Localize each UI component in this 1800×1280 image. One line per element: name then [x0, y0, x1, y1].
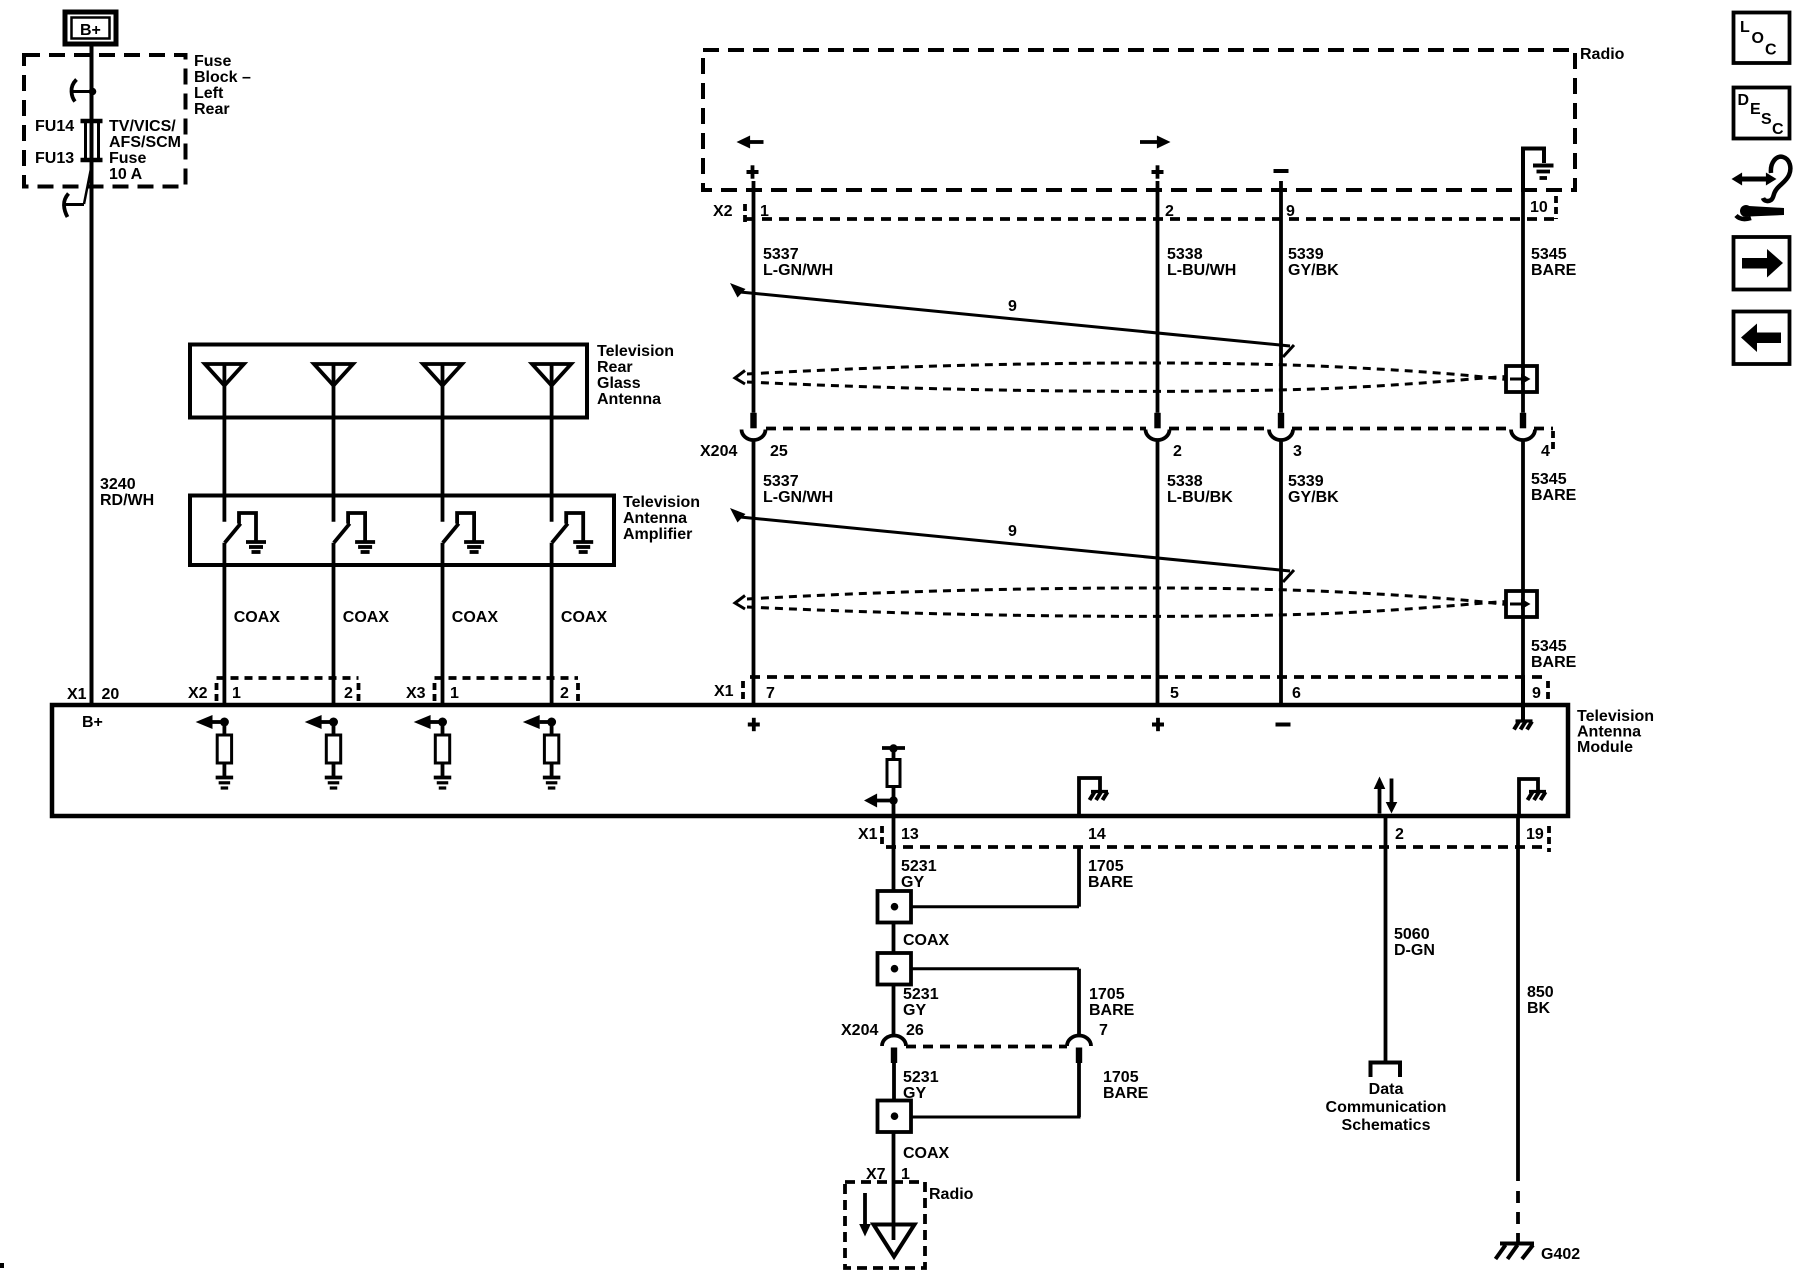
svg-text:1: 1 [450, 685, 459, 702]
svg-text:2: 2 [1165, 203, 1174, 220]
svg-text:3240: 3240 [100, 476, 136, 493]
svg-text:5231: 5231 [903, 986, 939, 1003]
svg-text:2: 2 [1173, 443, 1182, 460]
svg-text:5337: 5337 [763, 473, 799, 490]
svg-text:5338: 5338 [1167, 246, 1203, 263]
svg-text:3: 3 [1293, 443, 1302, 460]
svg-text:20: 20 [102, 686, 120, 703]
svg-text:1705: 1705 [1103, 1069, 1139, 1086]
svg-text:10: 10 [1530, 199, 1548, 216]
svg-text:COAX: COAX [343, 609, 390, 626]
svg-text:X204: X204 [700, 443, 737, 460]
svg-text:L-BU/BK: L-BU/BK [1167, 489, 1233, 506]
svg-text:COAX: COAX [561, 609, 608, 626]
svg-text:26: 26 [906, 1022, 924, 1039]
svg-text:2: 2 [1395, 826, 1404, 843]
svg-text:S: S [1761, 111, 1772, 128]
svg-text:RD/WH: RD/WH [100, 492, 154, 509]
svg-text:GY: GY [901, 874, 924, 891]
svg-text:Fuse: Fuse [194, 53, 231, 70]
svg-text:7: 7 [766, 685, 775, 702]
svg-text:Antenna: Antenna [1577, 724, 1641, 741]
svg-text:B+: B+ [80, 22, 101, 39]
svg-text:7: 7 [1099, 1022, 1108, 1039]
svg-text:BARE: BARE [1531, 654, 1577, 671]
svg-text:Rear: Rear [194, 101, 230, 118]
svg-text:Television: Television [1577, 708, 1654, 725]
svg-text:Radio: Radio [1580, 46, 1625, 63]
svg-text:D-GN: D-GN [1394, 942, 1435, 959]
svg-text:AFS/SCM: AFS/SCM [109, 134, 181, 151]
svg-text:Rear: Rear [597, 359, 633, 376]
svg-text:X1: X1 [714, 683, 734, 700]
svg-text:Schematics: Schematics [1342, 1117, 1431, 1134]
svg-text:Antenna: Antenna [597, 391, 661, 408]
svg-text:5345: 5345 [1531, 638, 1567, 655]
svg-text:TV/VICS/: TV/VICS/ [109, 118, 176, 135]
svg-text:Block –: Block – [194, 69, 251, 86]
svg-text:L-GN/WH: L-GN/WH [763, 262, 833, 279]
svg-text:X1: X1 [858, 826, 878, 843]
svg-text:1: 1 [232, 685, 241, 702]
svg-text:9: 9 [1008, 523, 1017, 540]
svg-text:5339: 5339 [1288, 246, 1324, 263]
svg-text:25: 25 [770, 443, 788, 460]
svg-text:Fuse: Fuse [109, 150, 146, 167]
svg-text:BARE: BARE [1531, 262, 1577, 279]
svg-text:B+: B+ [82, 714, 103, 731]
svg-text:9: 9 [1286, 203, 1295, 220]
svg-text:Communication: Communication [1326, 1099, 1447, 1116]
svg-text:BARE: BARE [1089, 1002, 1135, 1019]
svg-text:L: L [1740, 19, 1750, 36]
svg-text:C: C [1772, 121, 1784, 138]
svg-text:X2: X2 [713, 203, 733, 220]
svg-text:10 A: 10 A [109, 166, 143, 183]
svg-text:19: 19 [1526, 826, 1544, 843]
svg-text:9: 9 [1532, 685, 1541, 702]
svg-text:5345: 5345 [1531, 471, 1567, 488]
svg-text:5: 5 [1170, 685, 1179, 702]
svg-text:GY/BK: GY/BK [1288, 262, 1339, 279]
svg-text:COAX: COAX [234, 609, 281, 626]
svg-text:2: 2 [560, 685, 569, 702]
svg-text:5345: 5345 [1531, 246, 1567, 263]
svg-text:FU14: FU14 [35, 118, 74, 135]
svg-text:Glass: Glass [597, 375, 641, 392]
svg-text:1: 1 [760, 203, 769, 220]
svg-text:D: D [1738, 92, 1750, 109]
svg-text:1705: 1705 [1088, 858, 1124, 875]
svg-text:2: 2 [344, 685, 353, 702]
svg-text:L-GN/WH: L-GN/WH [763, 489, 833, 506]
svg-text:6: 6 [1292, 685, 1301, 702]
svg-text:850: 850 [1527, 984, 1554, 1001]
svg-text:FU13: FU13 [35, 150, 74, 167]
svg-text:O: O [1752, 30, 1764, 47]
svg-text:X1: X1 [67, 686, 87, 703]
svg-text:X3: X3 [406, 685, 426, 702]
svg-text:5337: 5337 [763, 246, 799, 263]
svg-text:Amplifier: Amplifier [623, 526, 692, 543]
svg-text:GY/BK: GY/BK [1288, 489, 1339, 506]
svg-text:E: E [1750, 101, 1761, 118]
svg-text:14: 14 [1088, 826, 1106, 843]
svg-text:COAX: COAX [452, 609, 499, 626]
svg-text:5231: 5231 [901, 858, 937, 875]
svg-text:X2: X2 [188, 685, 208, 702]
svg-text:COAX: COAX [903, 1145, 950, 1162]
svg-text:COAX: COAX [903, 932, 950, 949]
svg-text:Left: Left [194, 85, 224, 102]
svg-text:4: 4 [1541, 443, 1550, 460]
svg-text:9: 9 [1008, 298, 1017, 315]
svg-text:Television: Television [597, 343, 674, 360]
svg-text:5060: 5060 [1394, 926, 1430, 943]
svg-text:G402: G402 [1541, 1246, 1580, 1263]
svg-text:GY: GY [903, 1002, 926, 1019]
svg-text:X204: X204 [841, 1022, 878, 1039]
svg-text:L-BU/WH: L-BU/WH [1167, 262, 1236, 279]
svg-text:Antenna: Antenna [623, 510, 687, 527]
svg-text:13: 13 [901, 826, 919, 843]
svg-text:BK: BK [1527, 1000, 1551, 1017]
svg-text:5231: 5231 [903, 1069, 939, 1086]
svg-text:BARE: BARE [1088, 874, 1134, 891]
svg-text:Data: Data [1369, 1081, 1404, 1098]
svg-text:Television: Television [623, 494, 700, 511]
svg-text:BARE: BARE [1531, 487, 1577, 504]
svg-text:C: C [1765, 42, 1777, 59]
svg-text:Radio: Radio [929, 1186, 974, 1203]
svg-text:BARE: BARE [1103, 1085, 1149, 1102]
svg-text:1705: 1705 [1089, 986, 1125, 1003]
svg-text:5339: 5339 [1288, 473, 1324, 490]
svg-text:Module: Module [1577, 739, 1633, 756]
svg-text:5338: 5338 [1167, 473, 1203, 490]
